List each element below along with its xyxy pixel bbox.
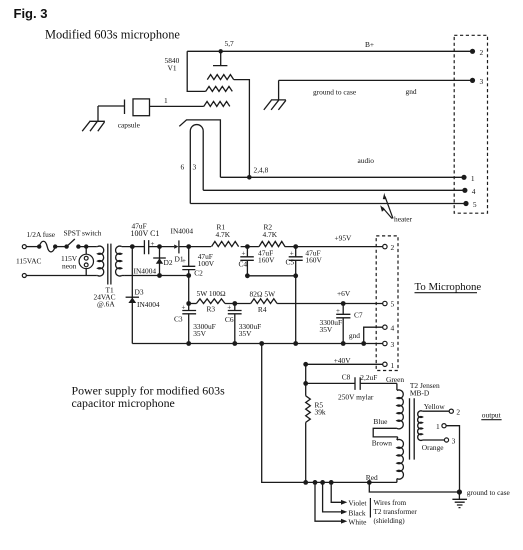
svg-text:SPST switch: SPST switch bbox=[64, 229, 102, 238]
capsule electrode plate bbox=[98, 100, 125, 115]
tube V1 cathode bbox=[179, 120, 220, 177]
resistor R4 bbox=[251, 299, 277, 304]
label C2 value bbox=[198, 252, 215, 268]
wire blue-brown jog bbox=[373, 428, 398, 437]
node C6 bottom bbox=[232, 341, 237, 346]
svg-text:+95V: +95V bbox=[335, 233, 353, 242]
wire AC bottom bbox=[26, 275, 96, 277]
svg-text:1: 1 bbox=[436, 422, 440, 431]
capacitor C3 bbox=[182, 303, 197, 343]
node T1 top junction bbox=[130, 244, 135, 249]
label R1 4.7K bbox=[216, 222, 231, 239]
svg-text:C5: C5 bbox=[286, 257, 295, 266]
tube V1 plate bbox=[213, 51, 227, 65]
wire case ground bbox=[369, 482, 459, 492]
node neon junction bbox=[84, 244, 88, 248]
capacitor C7 bbox=[336, 304, 350, 344]
output pin 2 bbox=[449, 408, 460, 417]
svg-text:R3: R3 bbox=[207, 305, 216, 314]
label wires from T2 bbox=[374, 499, 418, 525]
svg-text:Yellow: Yellow bbox=[424, 402, 446, 411]
node C3 bottom bbox=[186, 341, 191, 346]
node C7 bottom bbox=[341, 341, 346, 346]
node C2 top bbox=[186, 244, 191, 249]
wire railA seg3 bbox=[179, 246, 211, 248]
svg-text:2,4,8: 2,4,8 bbox=[254, 166, 269, 175]
svg-text:V1: V1 bbox=[168, 64, 177, 73]
node D2 bottom bbox=[157, 273, 162, 278]
diode D1 bbox=[174, 240, 179, 253]
connector psu dashed box bbox=[376, 236, 398, 371]
svg-text:5,7: 5,7 bbox=[225, 39, 235, 48]
svg-text:To Microphone: To Microphone bbox=[415, 281, 482, 293]
wire g3 to node 2,4,8 bbox=[234, 80, 250, 178]
pin 5 (psu) bbox=[383, 300, 395, 309]
svg-text:3: 3 bbox=[480, 77, 484, 86]
tube V1 heater loop bbox=[190, 125, 203, 204]
svg-text:ground to case: ground to case bbox=[467, 488, 511, 497]
label C6 value bbox=[239, 322, 262, 338]
svg-text:Green: Green bbox=[386, 375, 404, 384]
resistor R5 bbox=[306, 383, 311, 482]
transformer T1 primary bbox=[96, 246, 104, 276]
svg-text:35V: 35V bbox=[239, 329, 252, 338]
wire +40V bbox=[306, 363, 383, 365]
heater arrows bbox=[380, 193, 393, 219]
svg-text:R4: R4 bbox=[258, 305, 267, 314]
svg-text:Modified 603s microphone: Modified 603s microphone bbox=[45, 28, 180, 42]
wire railA seg1 bbox=[132, 246, 144, 248]
node 2,4,8 junction bbox=[247, 175, 252, 180]
label 5840 V1 bbox=[165, 56, 180, 73]
svg-text:250V mylar: 250V mylar bbox=[338, 393, 374, 402]
pin 2 (psu) bbox=[383, 243, 395, 252]
terminal 115VAC neutral bbox=[22, 274, 26, 278]
svg-text:capacitor microphone: capacitor microphone bbox=[72, 396, 175, 410]
svg-text:T2 transformer: T2 transformer bbox=[374, 508, 418, 516]
label C5 value bbox=[305, 249, 322, 265]
svg-text:39k: 39k bbox=[315, 407, 326, 416]
wire AC top bbox=[26, 246, 39, 248]
svg-text:3: 3 bbox=[193, 163, 197, 172]
svg-text:C3: C3 bbox=[174, 315, 183, 324]
label T1 24VAC @.6A bbox=[94, 285, 116, 308]
svg-text:3: 3 bbox=[391, 340, 395, 349]
svg-text:D3: D3 bbox=[135, 288, 144, 297]
neon lamp bbox=[79, 247, 93, 276]
svg-text:heater: heater bbox=[394, 215, 413, 224]
capacitor C2 bbox=[182, 247, 195, 276]
pin 4 (mic) bbox=[462, 187, 476, 196]
label C1 value bbox=[131, 222, 160, 238]
svg-text:B+: B+ bbox=[365, 40, 374, 49]
svg-text:capsule: capsule bbox=[118, 121, 141, 130]
wire audio bbox=[220, 176, 462, 178]
wire ground-to-case bbox=[279, 79, 471, 81]
node red-case junction bbox=[367, 480, 372, 485]
label R5 39k bbox=[315, 400, 326, 416]
capacitor C5 bbox=[289, 247, 303, 344]
wire B+ rail bbox=[187, 50, 470, 52]
wire capsule to g1 bbox=[150, 105, 204, 107]
svg-text:160V: 160V bbox=[305, 256, 322, 265]
capsule body bbox=[133, 99, 150, 116]
wire rail D bbox=[132, 343, 382, 345]
svg-text:gnd: gnd bbox=[406, 87, 417, 96]
wire yellow tap bbox=[423, 410, 450, 412]
switch SPST bbox=[64, 239, 80, 249]
svg-text:White: White bbox=[348, 518, 367, 527]
svg-text:5: 5 bbox=[473, 200, 477, 209]
wire pin4 link bbox=[364, 327, 383, 343]
node 5,7 junction bbox=[219, 49, 223, 53]
node R5 bottom bbox=[303, 480, 308, 485]
wire switch to T1 bbox=[78, 246, 96, 248]
svg-text:C7: C7 bbox=[354, 311, 363, 320]
wire railA seg2 bbox=[149, 246, 175, 248]
output pin 1 bbox=[436, 422, 460, 492]
connector mic dashed box bbox=[454, 35, 487, 213]
node shield black bbox=[320, 480, 325, 485]
svg-text:1/2A fuse: 1/2A fuse bbox=[27, 230, 56, 239]
ground capsule bbox=[82, 106, 105, 131]
wire C2-C3 link bbox=[188, 276, 190, 304]
svg-text:1: 1 bbox=[164, 96, 168, 105]
shield wire violet bbox=[331, 482, 347, 504]
transformer T2 primary upper bbox=[397, 383, 403, 428]
wire R3-R4 bbox=[225, 303, 251, 305]
svg-text:IN4004: IN4004 bbox=[171, 227, 194, 236]
pin 3 (psu) bbox=[383, 340, 395, 349]
svg-text:Red: Red bbox=[366, 473, 378, 482]
shield wire black bbox=[323, 482, 348, 514]
svg-text:ground to case: ground to case bbox=[313, 88, 357, 97]
svg-text:115VAC: 115VAC bbox=[16, 257, 42, 266]
wire R4 to pin5 (+6V) bbox=[277, 303, 383, 305]
pin 5 (mic) bbox=[463, 200, 477, 209]
svg-text:4: 4 bbox=[391, 324, 395, 333]
svg-text:+: + bbox=[182, 303, 186, 311]
tube V1 grid g2 bbox=[206, 86, 233, 91]
capacitor C1 bbox=[144, 240, 154, 255]
svg-text:1: 1 bbox=[471, 174, 475, 183]
svg-text:gnd: gnd bbox=[349, 331, 360, 340]
svg-text:+: + bbox=[336, 307, 340, 315]
transformer T1 core bbox=[108, 244, 111, 285]
svg-text:100V: 100V bbox=[198, 259, 215, 268]
tube V1 grid g3 bbox=[207, 75, 233, 80]
svg-text:100V C1: 100V C1 bbox=[131, 229, 160, 238]
tube V1 grid g1 bbox=[204, 101, 230, 106]
svg-text:IN4004: IN4004 bbox=[137, 300, 160, 309]
label output bbox=[481, 411, 501, 420]
brace shield note bbox=[369, 498, 371, 518]
node C5 bottom bbox=[293, 341, 298, 346]
svg-text:Blue: Blue bbox=[373, 417, 388, 426]
wire +40V drop bbox=[305, 364, 307, 383]
transformer T2 secondary bbox=[418, 411, 423, 441]
node shield violet bbox=[329, 480, 334, 485]
svg-text:(shielding): (shielding) bbox=[374, 517, 406, 525]
fuse F1 bbox=[37, 241, 57, 252]
svg-text:Brown: Brown bbox=[372, 438, 392, 447]
resistor R1 bbox=[212, 241, 239, 246]
terminal 115VAC hot bbox=[22, 245, 26, 249]
svg-text:160V: 160V bbox=[258, 256, 275, 265]
svg-text:3: 3 bbox=[452, 437, 456, 446]
capacitor C4 bbox=[240, 247, 254, 276]
node shield white bbox=[313, 480, 318, 485]
svg-text:1: 1 bbox=[391, 361, 395, 370]
wire rail B right bbox=[247, 275, 295, 277]
node D2 top bbox=[157, 244, 162, 249]
svg-text:neon: neon bbox=[62, 262, 77, 271]
node +40V bbox=[303, 362, 308, 367]
svg-text:4: 4 bbox=[472, 187, 476, 196]
pin 1 (mic) bbox=[461, 174, 475, 183]
node drop junction bbox=[259, 341, 264, 346]
svg-text:4.7K: 4.7K bbox=[263, 230, 278, 239]
svg-text:6: 6 bbox=[181, 163, 185, 172]
transformer T1 secondary bbox=[116, 246, 133, 276]
svg-text:C2: C2 bbox=[194, 269, 203, 278]
node ground to case bbox=[457, 489, 462, 494]
svg-text:+: + bbox=[290, 249, 294, 257]
node C4 bottom bbox=[245, 273, 250, 278]
svg-text:+40V: +40V bbox=[334, 356, 352, 365]
svg-text:2: 2 bbox=[480, 48, 484, 57]
capacitor C6 bbox=[227, 303, 241, 343]
svg-text:+: + bbox=[242, 249, 246, 257]
label C7 value bbox=[320, 318, 343, 334]
label To Microphone bbox=[415, 281, 482, 293]
label C4 value bbox=[258, 249, 275, 265]
wire railA to pin2 (+95V) bbox=[285, 246, 383, 248]
resistor R3 bbox=[196, 299, 225, 304]
wire red line bbox=[306, 481, 397, 483]
node C3 top bbox=[186, 301, 191, 306]
wire fuse to switch bbox=[55, 246, 66, 248]
wire heater A bbox=[203, 189, 463, 191]
svg-text:C6: C6 bbox=[225, 315, 234, 324]
shield wire white bbox=[315, 482, 347, 523]
diode D2 bbox=[153, 247, 166, 276]
node C4 top bbox=[245, 244, 250, 249]
label R2 4.7K bbox=[263, 222, 278, 239]
svg-text:+: + bbox=[227, 303, 231, 311]
ground mic case bbox=[264, 80, 286, 110]
node C5 bottom corner bbox=[293, 273, 298, 278]
pin 1 (psu) bbox=[383, 361, 395, 370]
node pin4 link bbox=[361, 341, 366, 346]
svg-text:IN4004: IN4004 bbox=[134, 267, 157, 276]
svg-text:Fig. 3: Fig. 3 bbox=[14, 6, 48, 21]
svg-text:Wires from: Wires from bbox=[374, 499, 407, 507]
wire R3 stub bbox=[189, 303, 197, 305]
wire orange tap bbox=[423, 439, 445, 441]
svg-text:2,2uF: 2,2uF bbox=[360, 373, 377, 382]
node C8 junction bbox=[303, 381, 308, 386]
capacitor C8 bbox=[306, 377, 397, 390]
svg-text:C8: C8 bbox=[342, 372, 351, 381]
svg-text:4.7K: 4.7K bbox=[216, 230, 231, 239]
title Power supply caption bbox=[72, 384, 226, 410]
wire railA seg4 bbox=[241, 246, 259, 248]
svg-text:D2: D2 bbox=[164, 258, 173, 267]
svg-text:audio: audio bbox=[358, 156, 375, 165]
svg-text:Orange: Orange bbox=[422, 443, 444, 452]
svg-text:35V: 35V bbox=[193, 329, 206, 338]
svg-text:MB-D: MB-D bbox=[410, 388, 430, 397]
label C3 value bbox=[193, 322, 216, 338]
svg-text:+: + bbox=[182, 257, 186, 265]
svg-text:C4: C4 bbox=[239, 260, 248, 269]
output pin 3 bbox=[444, 437, 455, 446]
label 115V neon bbox=[61, 254, 78, 271]
pin 3 (mic) bbox=[470, 77, 484, 86]
node C2 bottom bbox=[186, 273, 191, 278]
svg-text:2: 2 bbox=[391, 243, 395, 252]
svg-text:82Ω 5W: 82Ω 5W bbox=[250, 290, 276, 299]
transformer T2 core bbox=[410, 398, 415, 459]
svg-text:Violet: Violet bbox=[348, 499, 367, 508]
svg-text:@.6A: @.6A bbox=[97, 300, 115, 309]
svg-text:5: 5 bbox=[391, 300, 395, 309]
svg-text:+6V: +6V bbox=[337, 289, 351, 298]
ground earth symbol bbox=[452, 492, 467, 508]
node C7 top bbox=[341, 301, 346, 306]
diode D3 bbox=[126, 247, 139, 344]
svg-text:Black: Black bbox=[348, 508, 366, 517]
transformer T2 primary lower bbox=[397, 437, 404, 483]
svg-text:output: output bbox=[482, 411, 502, 420]
label T2 Jensen MB-D bbox=[410, 381, 440, 397]
svg-text:5W 100Ω: 5W 100Ω bbox=[197, 289, 226, 298]
wire gnd drop bbox=[262, 344, 306, 483]
pin 2 (mic) bbox=[470, 48, 484, 57]
wire rail B left bbox=[125, 275, 189, 277]
node C5 top bbox=[293, 244, 298, 249]
svg-text:2: 2 bbox=[456, 408, 460, 417]
node C6 top bbox=[232, 301, 237, 306]
wire screen to B+ bbox=[187, 51, 206, 91]
pin 4 (psu) bbox=[383, 324, 395, 333]
svg-text:35V: 35V bbox=[320, 325, 333, 334]
resistor R2 bbox=[259, 241, 285, 246]
wire heater B bbox=[190, 203, 464, 205]
